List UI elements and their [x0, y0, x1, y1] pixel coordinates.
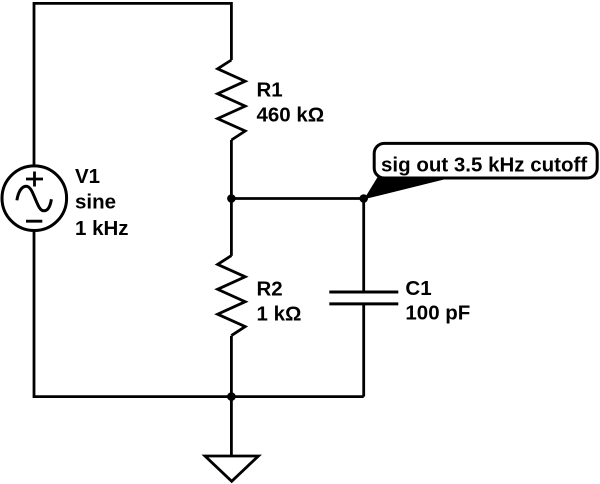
- node B (output): [359, 194, 368, 203]
- resistor R2: [218, 256, 246, 336]
- node C (ground junction): [227, 392, 236, 401]
- resistor R1: [218, 60, 246, 140]
- label R2 1 kΩ: [257, 277, 302, 325]
- label V1 sine 1 kHz: [75, 165, 129, 240]
- svg-text:1 kΩ: 1 kΩ: [257, 302, 302, 325]
- svg-text:100 pF: 100 pF: [405, 301, 470, 324]
- wire mid rail R1 to node: [230, 140, 233, 199]
- wire R2 to bottom: [230, 336, 233, 397]
- wire bottom rail: [34, 231, 364, 397]
- svg-text:460 kΩ: 460 kΩ: [257, 103, 325, 126]
- wire output to C1: [362, 199, 365, 293]
- svg-text:R1: R1: [257, 78, 283, 101]
- svg-text:sig out 3.5 kHz cutoff: sig out 3.5 kHz cutoff: [381, 154, 587, 177]
- svg-text:V1: V1: [75, 165, 100, 188]
- label C1 100 pF: [405, 277, 470, 325]
- svg-text:1 kHz: 1 kHz: [75, 217, 129, 240]
- wire node to R2: [230, 199, 233, 256]
- svg-text:C1: C1: [405, 277, 431, 300]
- ground: [205, 397, 258, 482]
- svg-text:R2: R2: [257, 277, 283, 300]
- voltage source V1: [2, 166, 67, 231]
- capacitor C1: [329, 292, 398, 304]
- wire top rail: [34, 3, 231, 165]
- label R1 460 kΩ: [257, 78, 325, 126]
- svg-text:sine: sine: [75, 190, 116, 213]
- node A (R1/R2 junction): [227, 194, 236, 203]
- wire node row: [231, 197, 363, 200]
- callout sig out 3.5 kHz cutoff: [364, 143, 597, 199]
- wire C1 to bottom: [362, 304, 365, 397]
